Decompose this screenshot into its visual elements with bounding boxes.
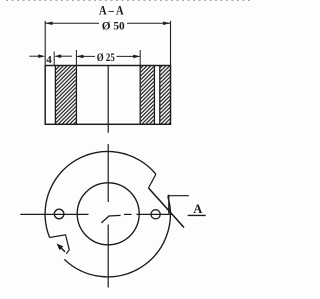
- cutting plane diagonal: [149, 188, 185, 228]
- circular view horizontal centerline right: [137, 213, 173, 215]
- arrow d50 left: [45, 22, 52, 26]
- section end vertical stub: [168, 195, 170, 214]
- hatch left wall: [56, 66, 76, 124]
- hatch right wall outer band: [160, 66, 170, 124]
- bore right edge line: [139, 66, 141, 125]
- circular view vertical centerline lower: [107, 225, 109, 288]
- extension line left d50: [44, 21, 46, 66]
- keyway zigzag mark at center: [101, 215, 120, 223]
- extension stub x=54: [53, 52, 55, 66]
- hatch right wall inner band: [141, 66, 154, 124]
- extension line d25 right: [139, 50, 141, 66]
- svg-text:Ø 50: Ø 50: [102, 18, 125, 32]
- section outline rectangle: [45, 66, 170, 125]
- arrow d25 right: [133, 55, 140, 59]
- svg-text:4: 4: [46, 54, 52, 66]
- svg-text:Ø 25: Ø 25: [97, 52, 115, 64]
- dim 4 right arrow: [54, 54, 61, 58]
- outer circle lower arc: [64, 197, 170, 277]
- arrow d25 left: [76, 55, 83, 59]
- extension line d25 left: [75, 50, 77, 66]
- notch arrow head: [57, 244, 64, 251]
- label A underline: [188, 214, 206, 216]
- section centerline: [107, 66, 109, 133]
- notch arrow tail: [61, 248, 65, 252]
- bottom-left notch: [50, 235, 70, 254]
- left hole: [54, 209, 64, 219]
- bore left edge line: [75, 66, 77, 125]
- circular view horizontal centerline left: [20, 213, 88, 215]
- notch inner edge line: [54, 66, 56, 125]
- extension line right d50: [170, 21, 172, 66]
- svg-text:A – A: A – A: [99, 3, 124, 17]
- outer circle upper arc: [45, 151, 156, 237]
- section end horizontal line: [168, 195, 190, 197]
- right hole: [151, 210, 160, 219]
- arrow d50 right: [163, 22, 171, 26]
- dim 4 left arrow: [30, 55, 39, 57]
- circular view vertical centerline upper: [107, 144, 109, 202]
- centerline dash: [124, 213, 132, 215]
- dimension line d50: [45, 22, 170, 24]
- hole slot left edge: [153, 66, 155, 125]
- page edge dashed line: [6, 0, 252, 2]
- hole slot right edge: [159, 66, 161, 125]
- svg-text:A: A: [193, 202, 202, 216]
- top-right notch edge: [149, 174, 156, 188]
- inner bore circle: [77, 183, 139, 245]
- dimension line d25: [76, 55, 140, 57]
